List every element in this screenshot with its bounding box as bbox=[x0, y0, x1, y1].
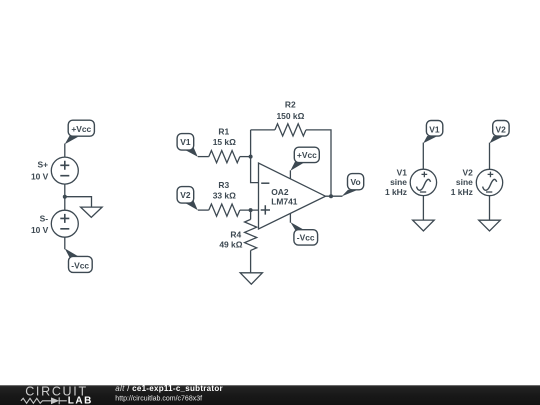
svg-text:V1: V1 bbox=[180, 137, 191, 147]
svg-text:10 V: 10 V bbox=[31, 171, 49, 181]
svg-text:R3: R3 bbox=[218, 180, 229, 190]
svg-text:LAB: LAB bbox=[68, 395, 93, 405]
svg-text:-Vcc: -Vcc bbox=[71, 260, 89, 270]
svg-text:S-: S- bbox=[40, 214, 49, 224]
svg-text:V1: V1 bbox=[397, 167, 408, 177]
svg-text:-Vcc: -Vcc bbox=[297, 233, 315, 243]
svg-text:V1: V1 bbox=[429, 125, 440, 135]
svg-text:10 V: 10 V bbox=[31, 225, 49, 235]
svg-text:15 kΩ: 15 kΩ bbox=[213, 137, 236, 147]
svg-text:33 kΩ: 33 kΩ bbox=[213, 191, 236, 201]
svg-text:1 kHz: 1 kHz bbox=[451, 187, 473, 197]
svg-text:R2: R2 bbox=[285, 99, 296, 109]
svg-text:sine: sine bbox=[456, 177, 473, 187]
svg-text:alt / ce1-exp11-c_subtrator: alt / ce1-exp11-c_subtrator bbox=[115, 384, 223, 393]
svg-text:49 kΩ: 49 kΩ bbox=[219, 239, 242, 249]
svg-text:OA2: OA2 bbox=[271, 187, 289, 197]
svg-text:S+: S+ bbox=[37, 160, 48, 170]
svg-text:V2: V2 bbox=[180, 190, 191, 200]
svg-text:+Vcc: +Vcc bbox=[71, 124, 91, 134]
svg-text:V2: V2 bbox=[496, 125, 507, 135]
svg-text:http://circuitlab.com/c768x3f: http://circuitlab.com/c768x3f bbox=[115, 395, 202, 402]
svg-text:R4: R4 bbox=[230, 229, 241, 239]
svg-text:150 kΩ: 150 kΩ bbox=[276, 111, 304, 121]
svg-text:sine: sine bbox=[390, 177, 407, 187]
svg-text:R1: R1 bbox=[218, 127, 229, 137]
svg-text:Vo: Vo bbox=[351, 177, 361, 187]
svg-text:1 kHz: 1 kHz bbox=[385, 187, 407, 197]
svg-text:V2: V2 bbox=[462, 167, 473, 177]
svg-text:+Vcc: +Vcc bbox=[297, 150, 317, 160]
svg-text:LM741: LM741 bbox=[271, 197, 298, 207]
